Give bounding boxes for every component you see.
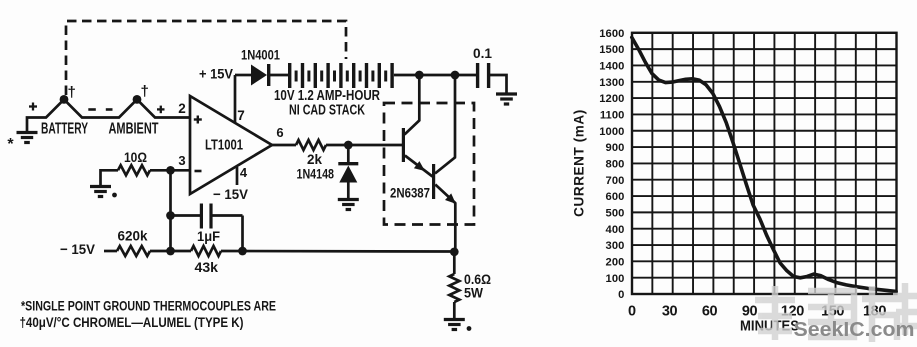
svg-text:1μF: 1μF <box>197 228 220 244</box>
svg-text:1500: 1500 <box>599 44 624 56</box>
svg-text:LT1001: LT1001 <box>205 138 243 154</box>
svg-text:1200: 1200 <box>599 93 624 105</box>
svg-text:620k: 620k <box>118 228 148 244</box>
svg-text:43k: 43k <box>195 259 219 275</box>
svg-text:0.1: 0.1 <box>473 46 492 61</box>
svg-text:1300: 1300 <box>599 77 624 89</box>
svg-text:†: † <box>141 83 149 100</box>
svg-text:1N4148: 1N4148 <box>297 166 335 182</box>
svg-text:NI CAD STACK: NI CAD STACK <box>289 103 365 119</box>
svg-text:− 15V: − 15V <box>60 241 96 257</box>
svg-text:30: 30 <box>662 304 678 320</box>
svg-text:600: 600 <box>606 191 625 203</box>
svg-text:1600: 1600 <box>599 28 624 40</box>
svg-text:CURRENT (mA): CURRENT (mA) <box>572 109 587 217</box>
svg-text:60: 60 <box>702 304 718 320</box>
svg-text:300: 300 <box>606 240 625 252</box>
svg-text:10Ω: 10Ω <box>124 149 147 165</box>
svg-text:2: 2 <box>178 101 186 116</box>
svg-text:700: 700 <box>606 175 625 187</box>
svg-text:1400: 1400 <box>599 61 624 73</box>
svg-text:2N6387: 2N6387 <box>390 185 430 201</box>
svg-text:90: 90 <box>742 304 758 320</box>
svg-text:BATTERY: BATTERY <box>41 121 88 138</box>
svg-text:0: 0 <box>618 289 624 301</box>
svg-text:100: 100 <box>606 273 625 285</box>
svg-text:*: * <box>7 136 14 153</box>
svg-text:5W: 5W <box>464 285 484 301</box>
svg-text:†40μV/°C CHROMEL—ALUMEL (TYPE: †40μV/°C CHROMEL—ALUMEL (TYPE K) <box>20 315 244 331</box>
svg-text:*SINGLE POINT GROUND THERMOCOU: *SINGLE POINT GROUND THERMOCOUPLES ARE <box>21 299 276 315</box>
svg-text:0: 0 <box>628 304 636 320</box>
svg-text:SeekIC.com: SeekIC.com <box>794 319 915 341</box>
svg-text:1000: 1000 <box>599 126 624 138</box>
svg-text:1100: 1100 <box>600 110 625 122</box>
svg-text:800: 800 <box>606 159 625 171</box>
svg-text:400: 400 <box>606 224 625 236</box>
svg-text:AMBIENT: AMBIENT <box>109 121 159 138</box>
svg-text:500: 500 <box>606 208 625 220</box>
svg-text:1N4001: 1N4001 <box>241 47 280 63</box>
svg-text:+ 15V: + 15V <box>199 66 234 82</box>
svg-text:200: 200 <box>606 256 625 268</box>
svg-text:4: 4 <box>240 165 248 180</box>
svg-text:6: 6 <box>276 125 283 140</box>
svg-text:900: 900 <box>606 142 625 154</box>
svg-text:3: 3 <box>178 153 185 168</box>
svg-text:†: † <box>68 84 76 101</box>
svg-text:7: 7 <box>237 108 245 123</box>
svg-text:− 15V: − 15V <box>213 186 249 202</box>
